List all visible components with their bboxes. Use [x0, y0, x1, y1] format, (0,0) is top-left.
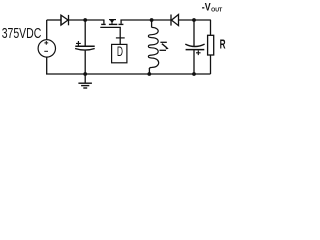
svg-text:D: D [117, 44, 123, 60]
svg-text:375VDC: 375VDC [2, 26, 42, 42]
svg-text:R: R [220, 38, 226, 52]
svg-text:OUT: OUT [211, 8, 223, 14]
svg-text:-V: -V [202, 2, 211, 14]
